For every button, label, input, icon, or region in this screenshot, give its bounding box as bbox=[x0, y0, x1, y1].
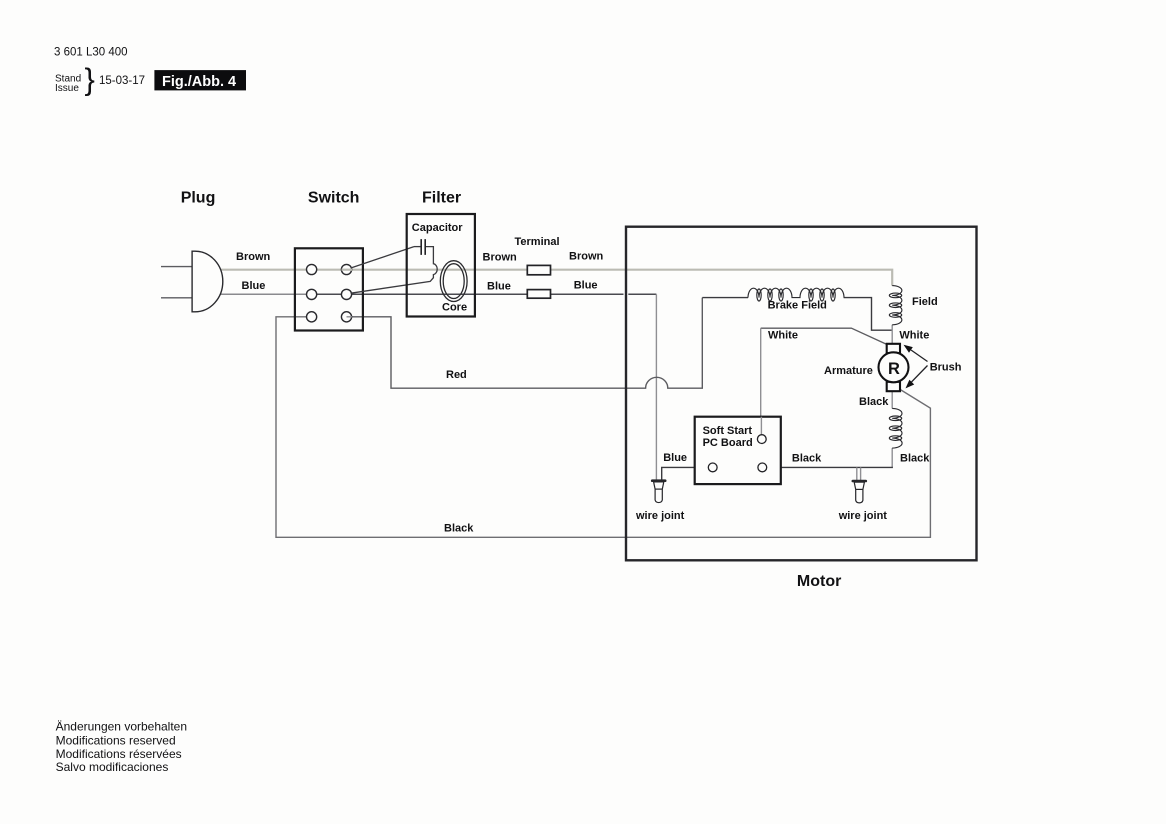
filter box bbox=[407, 214, 475, 317]
svg-text:Armature: Armature bbox=[824, 365, 873, 377]
switch contact circle bottom right bbox=[341, 312, 351, 322]
svg-text:Plug: Plug bbox=[181, 190, 216, 207]
switch contact circle middle right bbox=[341, 289, 351, 299]
svg-text:Blue: Blue bbox=[574, 279, 598, 291]
wire white vertical to soft start board bbox=[760, 328, 762, 435]
svg-text:Brown: Brown bbox=[569, 251, 604, 263]
svg-text:Black: Black bbox=[900, 453, 930, 465]
svg-text:Blue: Blue bbox=[242, 280, 266, 292]
terminal block blue bbox=[527, 290, 550, 299]
svg-text:Blue: Blue bbox=[487, 281, 511, 293]
brush bottom bbox=[887, 382, 900, 391]
svg-text:wire joint: wire joint bbox=[635, 510, 685, 522]
motor box bbox=[626, 227, 977, 561]
wire diagonal switch to capacitor left bbox=[351, 247, 414, 268]
svg-text:3 601 L30 400: 3 601 L30 400 bbox=[54, 47, 128, 59]
svg-text:Filter: Filter bbox=[422, 190, 461, 207]
switch contact circle top left bbox=[307, 264, 317, 274]
svg-text:Fig./Abb. 4: Fig./Abb. 4 bbox=[162, 74, 236, 90]
svg-text:Capacitor: Capacitor bbox=[412, 222, 463, 234]
terminal block brown bbox=[527, 265, 550, 274]
svg-text:Brake Field: Brake Field bbox=[768, 300, 827, 312]
brush top bbox=[887, 344, 900, 353]
wire joint 2 symbol bbox=[853, 481, 866, 503]
filter core outer ellipse bbox=[440, 261, 467, 302]
wire field coil to top brush bbox=[891, 325, 893, 344]
wire red: switch to brake field with hop over blue bbox=[350, 298, 702, 389]
svg-text:Salvo modificaciones: Salvo modificaciones bbox=[56, 760, 169, 774]
wire blue branch to soft start board bbox=[662, 467, 709, 481]
wire joint 2 stubs bbox=[857, 467, 861, 483]
wire brake field left lead bbox=[702, 297, 748, 299]
svg-text:Modifications reserved: Modifications reserved bbox=[56, 733, 176, 747]
svg-text:Switch: Switch bbox=[308, 190, 360, 207]
svg-text:15-03-17: 15-03-17 bbox=[99, 75, 145, 87]
wire red stub at bottom right contact bbox=[347, 316, 353, 318]
svg-text:Modifications réservées: Modifications réservées bbox=[56, 747, 182, 761]
svg-text:Änderungen vorbehalten: Änderungen vorbehalten bbox=[56, 719, 187, 733]
board pad bottom left bbox=[708, 463, 717, 472]
svg-text:Red: Red bbox=[446, 369, 467, 381]
switch box bbox=[295, 248, 363, 330]
wire black: switch bottom left to armature right side bbox=[276, 317, 930, 538]
svg-text:Terminal: Terminal bbox=[515, 236, 560, 248]
wire bottom brush to lower coil bbox=[891, 391, 893, 408]
wire blue: switch to motor bbox=[317, 293, 657, 295]
svg-text:Field: Field bbox=[912, 296, 938, 308]
svg-text:}: } bbox=[85, 62, 95, 97]
armature circle bbox=[879, 352, 909, 382]
figure label box bbox=[154, 70, 246, 90]
wire diagonal switch to capacitor right bbox=[351, 247, 437, 294]
brush arrow line bottom bbox=[912, 366, 928, 383]
board pad bottom right bbox=[758, 463, 767, 472]
svg-text:Black: Black bbox=[859, 396, 889, 408]
soft start pc board box bbox=[695, 417, 781, 484]
capacitor plates bbox=[421, 239, 425, 255]
plug body bbox=[192, 251, 223, 312]
wire brake field right lead to field coil bottom bbox=[844, 298, 893, 331]
brush arrow head top bbox=[904, 345, 913, 353]
svg-text:Black: Black bbox=[444, 522, 474, 534]
board pad top right bbox=[757, 435, 766, 444]
svg-text:White: White bbox=[899, 329, 929, 341]
wire white stub into board bbox=[760, 417, 762, 435]
svg-text:Black: Black bbox=[792, 453, 822, 465]
field coil bbox=[889, 286, 902, 325]
wire brown: plug to motor field corner bbox=[219, 270, 892, 286]
wire black: soft start board to lower coil bbox=[767, 466, 893, 468]
svg-text:PC Board: PC Board bbox=[703, 437, 753, 449]
svg-text:R: R bbox=[888, 360, 900, 378]
brake field coil bbox=[748, 288, 844, 301]
switch contact circle middle left bbox=[307, 289, 317, 299]
lower black coil bbox=[889, 408, 902, 448]
svg-text:Brush: Brush bbox=[930, 362, 962, 374]
capacitor left lead bbox=[414, 246, 421, 248]
svg-text:Brown: Brown bbox=[483, 252, 518, 264]
svg-text:Issue: Issue bbox=[55, 83, 79, 94]
wire joint 1 symbol bbox=[652, 481, 665, 503]
brush arrow head bottom bbox=[906, 380, 915, 389]
svg-text:Motor: Motor bbox=[797, 573, 841, 590]
plug prongs bbox=[161, 267, 192, 298]
wire brown across top right contact bbox=[342, 269, 353, 271]
svg-text:Soft Start: Soft Start bbox=[703, 425, 753, 437]
wire white: top brush to corner bbox=[761, 328, 887, 344]
wire blue: plug to switch bbox=[219, 293, 307, 295]
switch contact circle top right bbox=[341, 264, 351, 274]
svg-text:Core: Core bbox=[442, 302, 467, 314]
svg-text:wire joint: wire joint bbox=[838, 510, 888, 522]
wire lower coil to black junction bbox=[891, 448, 893, 467]
switch contact circle bottom left bbox=[307, 312, 317, 322]
wire blue vertical in motor to wire joint bbox=[655, 294, 657, 480]
svg-text:White: White bbox=[768, 330, 798, 342]
svg-text:Blue: Blue bbox=[663, 452, 687, 464]
svg-text:Brown: Brown bbox=[236, 251, 271, 263]
brush arrow line top bbox=[911, 350, 928, 362]
filter core inner ellipse bbox=[443, 264, 464, 299]
